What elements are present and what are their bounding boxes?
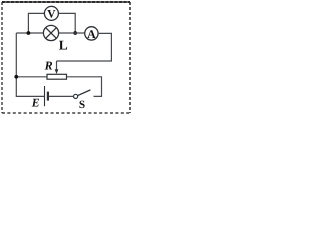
wire: left vertical bus [16, 33, 44, 96]
dashed box border top [2, 1, 130, 3]
voltmeter U1 circle [44, 6, 58, 20]
rheostat slider arrowhead [55, 69, 59, 74]
lamp L circle [43, 25, 58, 40]
dashed box border bottom [2, 112, 130, 114]
wire: voltmeter left branch [28, 13, 44, 33]
wire: battery to switch [49, 95, 74, 97]
lamp L cross stroke 1 [46, 28, 57, 39]
node junction dot right of lamp [73, 31, 77, 35]
svg-text:L: L [59, 37, 68, 52]
wire: voltmeter right branch [58, 13, 75, 33]
svg-text:V: V [47, 8, 56, 20]
battery E long plate [44, 86, 46, 106]
dashed box border left [1, 2, 3, 113]
lamp L cross stroke 2 [46, 28, 57, 39]
battery E short thick plate [47, 92, 49, 101]
switch S pivot circle [74, 94, 78, 98]
wire: resistor left to bus [16, 76, 47, 78]
rheostat slider arrow stem [56, 61, 58, 70]
svg-text:R: R [44, 59, 53, 73]
node junction dot on left bus at resistor row [14, 75, 18, 79]
resistor R body rectangle [47, 74, 67, 79]
svg-text:E: E [31, 95, 40, 109]
switch S blade [77, 90, 90, 96]
svg-text:S: S [79, 99, 85, 111]
svg-text:A: A [87, 27, 96, 41]
wire: ammeter right down to slider rail [57, 33, 112, 61]
node junction dot left of lamp [27, 31, 31, 35]
ammeter A circle [85, 27, 98, 40]
wire: lamp row horizontal [16, 32, 43, 34]
wire: resistor right down to switch [67, 77, 102, 97]
wire: lamp to ammeter [59, 32, 85, 34]
dashed box border right [129, 2, 131, 113]
